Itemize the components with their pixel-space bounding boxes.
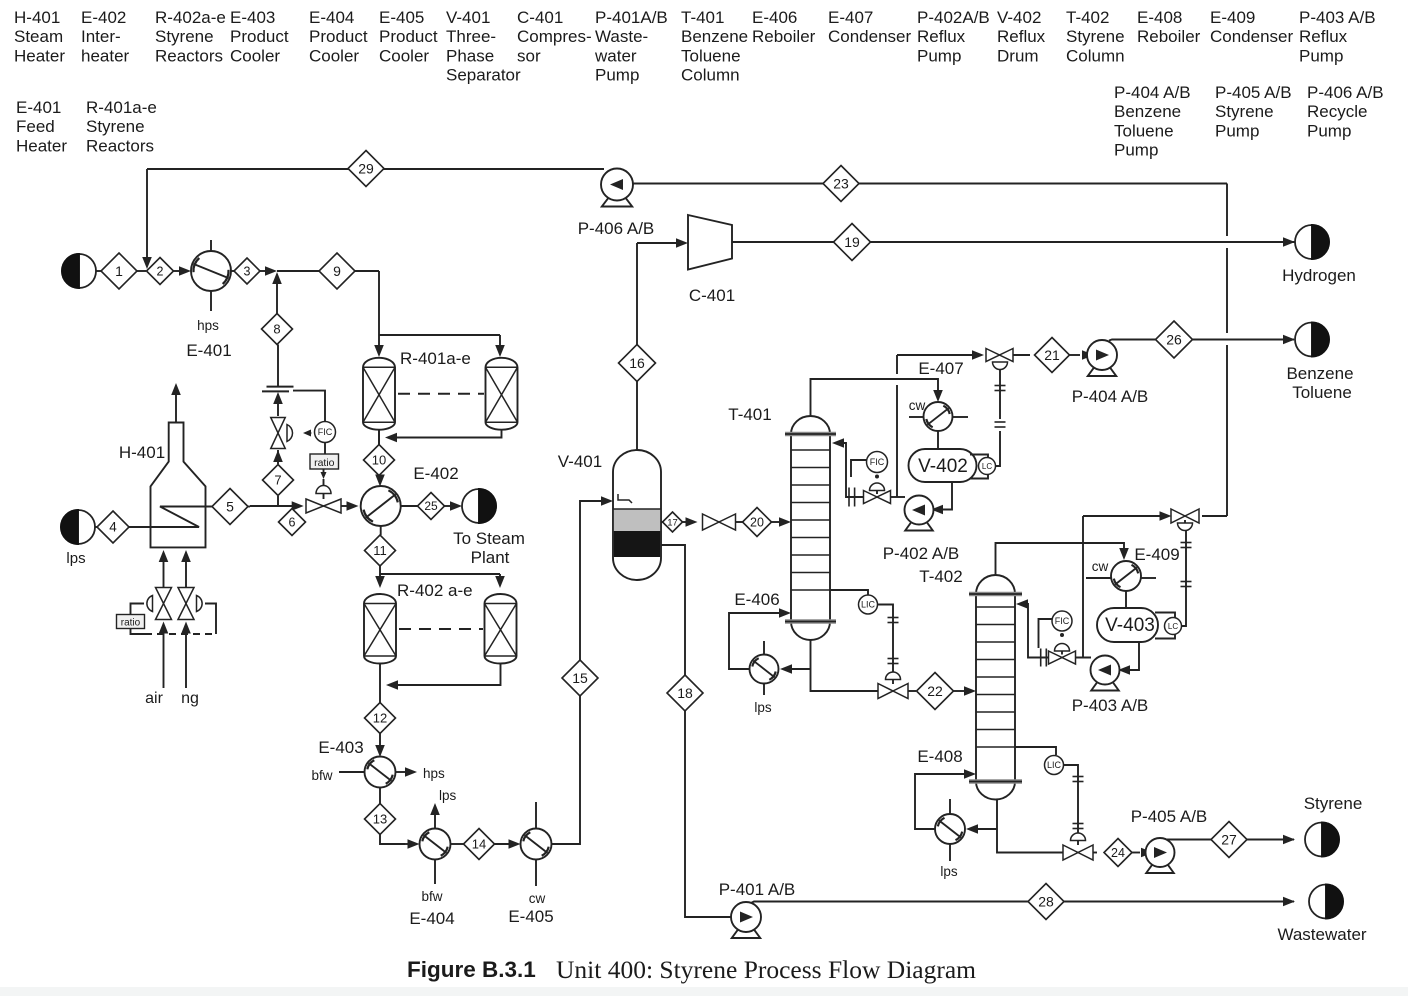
- svg-text:6: 6: [289, 515, 296, 529]
- svg-text:E-407: E-407: [918, 359, 963, 378]
- svg-text:20: 20: [750, 515, 764, 529]
- svg-text:V-401: V-401: [558, 452, 602, 471]
- svg-text:15: 15: [572, 670, 588, 686]
- svg-text:E-408: E-408: [917, 747, 962, 766]
- svg-text:V-402: V-402: [918, 456, 968, 477]
- svg-text:1: 1: [115, 263, 123, 279]
- svg-text:R-401a-e: R-401a-e: [400, 349, 471, 368]
- svg-text:Wastewater: Wastewater: [1277, 925, 1366, 944]
- svg-text:P-403 A/B: P-403 A/B: [1072, 696, 1149, 715]
- svg-text:H-401: H-401: [119, 443, 165, 462]
- svg-text:Figure B.3.1: Figure B.3.1: [407, 957, 536, 982]
- svg-text:P-406 A/B: P-406 A/B: [578, 219, 655, 238]
- svg-text:21: 21: [1044, 347, 1060, 363]
- svg-text:P-402 A/B: P-402 A/B: [883, 544, 960, 563]
- svg-text:E-406: E-406: [734, 590, 779, 609]
- svg-text:lps: lps: [66, 550, 85, 567]
- svg-text:5: 5: [226, 498, 234, 514]
- svg-text:26: 26: [1166, 331, 1182, 347]
- svg-text:14: 14: [472, 837, 486, 852]
- svg-text:28: 28: [1038, 893, 1054, 909]
- svg-text:27: 27: [1221, 831, 1237, 847]
- svg-text:cw: cw: [1092, 559, 1109, 574]
- svg-text:lps: lps: [754, 700, 772, 715]
- svg-text:H-401SteamHeater: H-401SteamHeater: [14, 8, 65, 65]
- svg-text:ratio: ratio: [314, 457, 335, 469]
- svg-text:T-401: T-401: [728, 405, 771, 424]
- svg-text:Unit 400: Styrene Process Flow: Unit 400: Styrene Process Flow Diagram: [556, 955, 976, 984]
- svg-text:FIC: FIC: [1055, 616, 1070, 626]
- svg-text:7: 7: [274, 473, 281, 488]
- svg-text:10: 10: [372, 453, 386, 468]
- svg-text:E-403: E-403: [318, 738, 363, 757]
- svg-text:ratio: ratio: [121, 618, 141, 629]
- svg-text:LC: LC: [982, 462, 992, 471]
- svg-text:Toluene: Toluene: [1292, 383, 1352, 402]
- svg-text:ng: ng: [181, 690, 199, 707]
- svg-text:lps: lps: [940, 864, 958, 879]
- svg-text:T-402: T-402: [919, 567, 962, 586]
- svg-text:Hydrogen: Hydrogen: [1282, 266, 1356, 285]
- svg-text:E-404: E-404: [409, 909, 454, 928]
- svg-text:E-405: E-405: [508, 907, 553, 926]
- svg-text:LIC: LIC: [1047, 760, 1062, 770]
- svg-text:12: 12: [373, 711, 387, 726]
- svg-text:25: 25: [424, 499, 438, 513]
- svg-text:air: air: [145, 690, 163, 707]
- svg-text:FIC: FIC: [870, 457, 885, 467]
- svg-text:V-403: V-403: [1105, 615, 1155, 636]
- svg-text:cw: cw: [909, 398, 926, 413]
- svg-text:V-402RefluxDrum: V-402RefluxDrum: [997, 8, 1046, 65]
- svg-text:E-402: E-402: [413, 464, 458, 483]
- svg-text:16: 16: [629, 355, 645, 371]
- svg-text:23: 23: [833, 175, 849, 191]
- svg-text:19: 19: [844, 234, 860, 250]
- svg-text:To Steam: To Steam: [453, 529, 525, 548]
- svg-text:P-404 A/B: P-404 A/B: [1072, 387, 1149, 406]
- svg-text:2: 2: [157, 264, 164, 278]
- svg-text:LIC: LIC: [861, 600, 876, 610]
- svg-text:cw: cw: [529, 891, 546, 906]
- svg-text:bfw: bfw: [421, 889, 442, 904]
- svg-text:hps: hps: [423, 766, 445, 781]
- svg-text:11: 11: [373, 543, 387, 558]
- svg-text:17: 17: [667, 517, 678, 528]
- svg-text:18: 18: [677, 685, 693, 701]
- svg-text:4: 4: [109, 520, 117, 535]
- svg-text:24: 24: [1111, 846, 1125, 860]
- svg-text:bfw: bfw: [311, 768, 332, 783]
- svg-text:22: 22: [927, 683, 943, 699]
- svg-text:FIC: FIC: [318, 427, 333, 437]
- svg-text:13: 13: [373, 812, 387, 827]
- svg-text:R-402 a-e: R-402 a-e: [397, 581, 473, 600]
- svg-text:P-401 A/B: P-401 A/B: [719, 880, 796, 899]
- svg-text:Plant: Plant: [471, 548, 510, 567]
- svg-text:Benzene: Benzene: [1286, 364, 1353, 383]
- svg-text:LC: LC: [1168, 622, 1178, 631]
- svg-text:Styrene: Styrene: [1304, 794, 1363, 813]
- svg-text:P-405 A/B: P-405 A/B: [1131, 807, 1208, 826]
- svg-text:lps: lps: [439, 788, 457, 803]
- svg-text:29: 29: [358, 160, 374, 176]
- svg-text:9: 9: [333, 263, 341, 279]
- svg-text:hps: hps: [197, 318, 219, 333]
- svg-text:3: 3: [244, 264, 251, 278]
- svg-text:E-409: E-409: [1134, 545, 1179, 564]
- svg-text:E-401: E-401: [186, 341, 231, 360]
- svg-text:8: 8: [273, 322, 280, 337]
- svg-text:C-401: C-401: [689, 286, 735, 305]
